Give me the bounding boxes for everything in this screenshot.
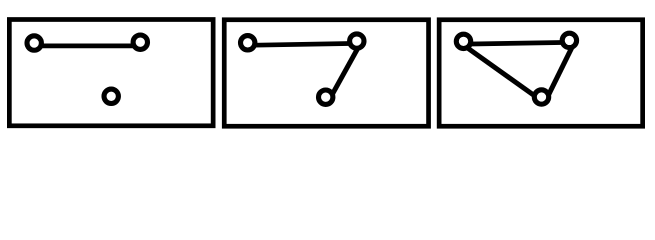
edge A2-B2	[248, 43, 357, 45]
node B1	[133, 35, 147, 49]
edge A3-B3	[464, 42, 570, 44]
box 3 frame	[439, 20, 643, 127]
box 2 frame	[224, 20, 428, 127]
edge B3-C3	[548, 40, 576, 97]
node A2	[241, 36, 255, 50]
node B2	[350, 34, 364, 48]
edge A3-C3	[458, 41, 536, 97]
node C1	[104, 89, 118, 103]
edge A1-B1	[34, 44, 140, 49]
node A3	[456, 34, 470, 48]
node C2	[319, 90, 333, 104]
edge B2-C2	[331, 41, 362, 97]
node C3	[534, 90, 548, 104]
box 1 frame	[9, 20, 213, 126]
node B3	[562, 33, 576, 47]
node A1	[27, 36, 41, 50]
